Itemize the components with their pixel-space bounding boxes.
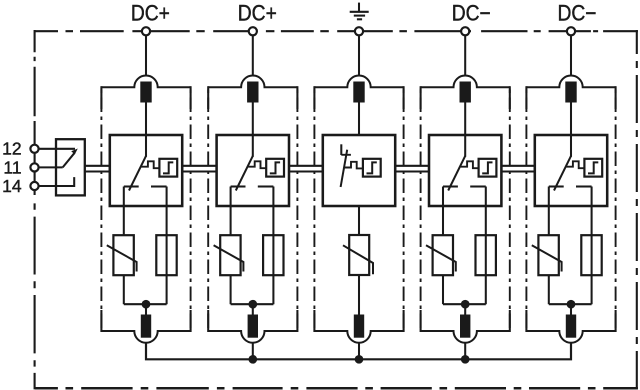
module 5 top corner stubs: [526, 86, 615, 109]
plug-in pin (top) module 5: [565, 82, 576, 103]
enclosure dash-dot border bottom edge: [35, 387, 638, 390]
wire varistor to node module 1: [123, 275, 125, 304]
wire pin to disconnector module 2: [252, 103, 254, 157]
plug-in pin (bottom) module 3: [354, 315, 364, 338]
fixed contact bar right module 5: [576, 185, 592, 187]
plug-in pin (top) module 4: [460, 82, 471, 103]
module 2 top edge with plug-in socket bump: [208, 76, 297, 88]
module 4 bottom corner stubs: [421, 310, 510, 332]
bus junction node module 4: [461, 355, 470, 364]
step-impulse icon module 1: [163, 162, 173, 173]
disconnector box module 4: [429, 135, 501, 206]
module 2 dashed outline left side: [207, 87, 209, 331]
step-impulse icon module 5: [588, 162, 598, 173]
module 4 top corner stubs: [421, 86, 510, 109]
wire contact 11: [39, 166, 63, 168]
module 4 top edge with plug-in socket bump: [421, 76, 510, 88]
module 2 dashed outline right side: [296, 87, 298, 331]
module 3 top edge with plug-in socket bump: [314, 75, 403, 87]
terminal circle contact 12: [30, 145, 38, 153]
module 3 top corner stubs: [314, 86, 403, 109]
fuse module 4: [476, 235, 496, 275]
disconnector switch blade module 4: [448, 156, 465, 191]
svg-text:DC−: DC−: [558, 0, 597, 25]
spark gap electrode stub module 3: [340, 144, 342, 155]
varistor module 5: [532, 235, 562, 275]
module 4 base socket line with recess: [421, 331, 510, 343]
module 4 dashed outline left side: [420, 87, 422, 331]
svg-text:11: 11: [3, 157, 21, 177]
svg-text:14: 14: [2, 176, 22, 196]
wire left branch module 5: [548, 187, 550, 236]
wire pin to disconnector module 4: [464, 103, 466, 157]
module 2 top corner stubs: [208, 86, 297, 109]
plug-in pin (top) module 3: [353, 82, 364, 103]
earth/ground symbol: [350, 3, 369, 20]
linkage double line segment 3: [289, 166, 323, 172]
wire left branch module 4: [442, 187, 444, 236]
module 3 dashed outline right side: [403, 87, 405, 331]
module 1 dashed outline left side: [100, 87, 102, 331]
wire terminal to module 5: [570, 35, 572, 76]
module 4 dashed outline right side: [509, 87, 511, 331]
wire right branch module 1: [166, 187, 168, 305]
fixed contact bar right module 1: [151, 185, 167, 187]
disconnector box module 5: [535, 135, 607, 206]
wire module 4 to bus: [464, 343, 466, 360]
wire module 2 to bus: [252, 343, 254, 360]
trip linkage module 3: [344, 162, 363, 169]
fixed contact bar right module 4: [470, 185, 486, 187]
surge-monitoring indicator box module 2: [266, 159, 284, 177]
wire module 3 to bus: [358, 343, 360, 360]
module 5 base socket line with recess: [526, 331, 615, 343]
step-impulse icon module 3: [367, 162, 377, 173]
wire terminal to module 3: [358, 35, 360, 76]
disconnector switch blade module 2: [236, 156, 253, 191]
junction node module 2: [248, 300, 257, 309]
terminal circle contact 11: [30, 163, 38, 171]
wire varistor to node module 2: [230, 275, 232, 304]
svg-text:DC−: DC−: [452, 0, 491, 25]
disconnector box module 3: [323, 135, 395, 206]
linkage double line segment 2: [182, 166, 216, 172]
surge-monitoring indicator box module 5: [584, 159, 602, 177]
spark gap blade module 3: [341, 150, 348, 187]
module 3 bottom corner stubs: [314, 310, 403, 332]
module 3 dashed outline left side: [313, 87, 315, 331]
wire branch join module 5: [549, 303, 592, 305]
surge-monitoring indicator box module 4: [479, 159, 497, 177]
fuse module 2: [263, 235, 283, 275]
module 2 bottom corner stubs: [208, 310, 297, 332]
wire terminal to module 2: [252, 35, 254, 76]
remote signalling changeover contact box: [56, 139, 85, 195]
module 5 top edge with plug-in socket bump: [526, 75, 615, 87]
linkage double line segment 1: [85, 166, 110, 172]
plug-in pin (top) module 2: [247, 82, 258, 103]
module 1 top edge with plug-in socket bump: [101, 76, 190, 88]
terminal circle contact 14: [30, 182, 38, 190]
plug-in pin (top) module 1: [140, 82, 151, 103]
fuse module 1: [156, 235, 176, 275]
disconnector switch blade module 1: [129, 156, 146, 191]
fixed contact bar left module 1: [124, 185, 139, 187]
disconnector box module 1: [110, 135, 182, 206]
module 1 base socket line with recess: [101, 331, 190, 343]
enclosure dash-dot border right edge: [636, 30, 638, 389]
svg-text:DC+: DC+: [238, 0, 277, 25]
step-impulse icon module 4: [482, 162, 492, 173]
wire varistor to pin module 3: [358, 275, 360, 315]
terminal circle DC− terminal 2: [567, 27, 575, 35]
wire branch join module 1: [124, 303, 167, 305]
terminal circle DC+ terminal 2: [249, 27, 257, 35]
module 3 base socket line with recess: [314, 331, 403, 343]
fixed contact bar left module 5: [549, 185, 564, 187]
wire right branch module 4: [485, 187, 487, 305]
wire pin to spark gap box module 3: [358, 103, 360, 137]
surge-monitoring indicator box module 3: [363, 159, 381, 177]
wire node to pin module 4: [464, 304, 466, 314]
wire left branch module 1: [123, 187, 125, 236]
module 5 dashed outline right side: [615, 87, 617, 331]
wire earth bus: [146, 343, 571, 360]
plug-in pin (bottom) module 4: [460, 315, 470, 338]
wire right branch module 2: [272, 187, 274, 305]
module 5 dashed outline left side: [525, 87, 527, 331]
terminal circle PE terminal: [355, 27, 363, 35]
enclosure dash-dot border left edge: [34, 30, 36, 389]
terminal circle DC+ terminal 1: [142, 27, 150, 35]
disconnector switch blade module 5: [554, 156, 571, 191]
svg-text:12: 12: [2, 139, 21, 159]
wire node to pin module 1: [145, 304, 147, 314]
thermal trip linkage module 2: [248, 161, 266, 168]
plug-in pin (bottom) module 2: [248, 315, 258, 338]
disconnector box module 2: [217, 135, 289, 206]
module 1 dashed outline right side: [190, 87, 192, 331]
fuse module 5: [581, 235, 601, 275]
fixed contact bar right module 2: [258, 185, 274, 187]
wire varistor to node module 4: [442, 275, 444, 304]
module 1 bottom corner stubs: [101, 310, 190, 332]
plug-in pin (bottom) module 5: [566, 315, 576, 338]
thermal trip linkage module 4: [461, 161, 479, 168]
wire node to pin module 5: [570, 304, 572, 314]
wire pin to disconnector module 5: [570, 103, 572, 157]
wire branch join module 2: [231, 303, 274, 305]
wire box to varistor module 3: [358, 206, 360, 235]
svg-text:DC+: DC+: [131, 0, 170, 25]
bus junction node module 2: [248, 355, 257, 364]
surge-monitoring indicator box module 1: [159, 159, 177, 177]
junction node module 5: [567, 300, 576, 309]
step-impulse icon module 2: [270, 162, 280, 173]
junction node module 4: [461, 300, 470, 309]
linkage double line segment 5: [501, 166, 534, 172]
varistor module 2: [214, 235, 244, 275]
wire varistor to node module 5: [548, 275, 550, 304]
thermal trip linkage module 1: [141, 161, 159, 168]
varistor module 3: [343, 235, 373, 275]
terminal circle DC− terminal 1: [461, 27, 469, 35]
wire terminal to module 1: [145, 35, 147, 76]
varistor module 4: [426, 235, 456, 275]
wire pin to disconnector module 1: [145, 103, 147, 157]
wire contact 14: [39, 177, 75, 186]
thermal trip linkage module 5: [566, 161, 584, 168]
fixed contact bar left module 2: [231, 185, 246, 187]
spark gap electrode foot module 3: [341, 154, 351, 156]
linkage double line segment 4: [395, 166, 429, 172]
varistor module 1: [107, 235, 137, 275]
wire node to pin module 2: [252, 304, 254, 314]
enclosure dash-dot border top edge: [35, 30, 638, 32]
wire branch join module 4: [443, 303, 486, 305]
module 5 bottom corner stubs: [526, 310, 615, 332]
wire left branch module 2: [230, 187, 232, 236]
fixed contact bar left module 4: [443, 185, 458, 187]
plug-in pin (bottom) module 1: [141, 315, 151, 338]
module 1 top corner stubs: [101, 86, 190, 109]
module 2 base socket line with recess: [208, 331, 297, 343]
bus junction node module 3: [355, 355, 364, 364]
junction node module 1: [142, 300, 151, 309]
wire right branch module 5: [591, 187, 593, 305]
changeover switch blade with arrow: [63, 149, 78, 168]
wire terminal to module 4: [464, 35, 466, 76]
wire contact 12: [39, 148, 75, 150]
